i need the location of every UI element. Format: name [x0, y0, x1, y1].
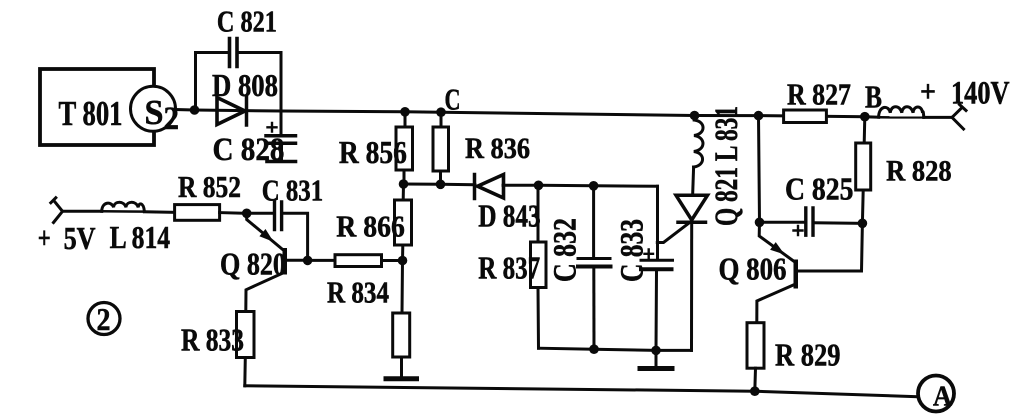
resistor R836 [439, 112, 443, 184]
svg-text:+: + [920, 74, 936, 109]
bottom rail wire [245, 386, 921, 397]
svg-text:Q 806: Q 806 [719, 252, 787, 287]
node dot C832 bottom [589, 344, 599, 354]
node dot at S2 output [190, 105, 200, 115]
wire C821 bypass loop [196, 53, 282, 112]
input fork +5V [51, 198, 63, 223]
output inductor [865, 115, 879, 118]
svg-text:Q 821 L 831: Q 821 L 831 [709, 106, 745, 226]
node C dot right [436, 107, 446, 117]
capacitor C821 plates [230, 39, 238, 67]
node C dot left [400, 107, 410, 117]
node B dot [860, 112, 870, 122]
capacitor C833 [656, 186, 659, 257]
transformer T801 box [40, 69, 154, 145]
svg-text:R 834: R 834 [327, 276, 389, 310]
svg-text:L 814: L 814 [110, 220, 171, 255]
svg-text:R 827: R 827 [787, 77, 851, 112]
svg-text:2: 2 [97, 301, 111, 337]
node dot C833 bottom [651, 346, 661, 356]
wire mid horizontal line [404, 184, 658, 186]
resistor R828 [862, 117, 864, 224]
output fork +140V [952, 105, 966, 130]
transistor Q806 [759, 222, 793, 261]
winding S2 circle [131, 86, 176, 131]
diode D843 [478, 175, 504, 199]
svg-text:5V: 5V [64, 221, 96, 256]
svg-text:+: + [38, 220, 51, 255]
ground left [386, 376, 417, 381]
svg-text:C 831: C 831 [262, 173, 324, 208]
wire input to L814 [63, 210, 102, 213]
resistor R837 [537, 185, 541, 348]
svg-text:140V: 140V [951, 76, 1010, 112]
capacitor C831 [247, 212, 273, 215]
gate wire Q821 [657, 222, 690, 243]
node dot Q820 base [303, 256, 313, 266]
svg-text:R 833: R 833 [181, 323, 244, 358]
diode D808 [217, 98, 245, 125]
node dot R866 bottom [398, 256, 408, 266]
svg-text:A: A [933, 381, 952, 413]
node dot R852 right [242, 209, 252, 219]
node dot R837 top [534, 181, 544, 191]
resistor R833 [237, 312, 255, 358]
node dot R836 bottom [436, 180, 446, 190]
wire main top rail [176, 110, 865, 117]
node dot bottom rail [750, 386, 760, 396]
inductor L831 [693, 116, 696, 121]
svg-text:C 833: C 833 [614, 219, 650, 282]
svg-text:Q 820: Q 820 [220, 247, 286, 282]
svg-text:2: 2 [164, 101, 180, 137]
figure number circled 2 [88, 303, 120, 335]
wire right branch vertical [759, 116, 760, 223]
node dot C825 right [858, 219, 868, 229]
svg-text:R 836: R 836 [465, 132, 530, 165]
node dot R856 bottom [399, 179, 409, 189]
node dot right branch top [754, 111, 764, 121]
resistor R829 [747, 323, 764, 369]
thyristor Q821 [676, 195, 708, 220]
resistor below R866 [402, 261, 403, 377]
ground mid [655, 351, 658, 367]
svg-text:R 837: R 837 [478, 250, 540, 285]
resistor R827 [784, 110, 827, 123]
svg-text:D 808: D 808 [212, 68, 278, 103]
svg-text:S: S [145, 93, 164, 132]
svg-text:C 825: C 825 [785, 172, 854, 207]
resistor R834 [309, 259, 403, 262]
svg-text:R 828: R 828 [886, 155, 952, 188]
svg-text:R 829: R 829 [775, 338, 841, 373]
node dot L831 top [690, 111, 700, 121]
inductor L814 [102, 202, 145, 211]
svg-text:T 801: T 801 [59, 94, 123, 133]
transistor Q820 [247, 213, 283, 250]
svg-text:C 832: C 832 [548, 218, 584, 282]
svg-text:R 856: R 856 [339, 135, 407, 170]
svg-text:D 843: D 843 [478, 199, 541, 234]
resistor R852 [175, 205, 220, 221]
capacitor C828 [280, 111, 283, 134]
resistor R866 [403, 184, 404, 261]
svg-text:C 828: C 828 [213, 132, 285, 168]
wire mid bottom line [539, 348, 692, 350]
capacitor C825 [760, 221, 805, 224]
svg-text:C: C [445, 82, 461, 117]
wire to output fork [924, 116, 952, 119]
node dot C825 left [755, 218, 765, 228]
capacitor C832 [592, 186, 595, 257]
svg-text:C 821: C 821 [217, 4, 277, 39]
node dot C832 top [589, 181, 599, 191]
svg-text:R 852: R 852 [178, 169, 241, 204]
wire L814 to R852 [144, 210, 174, 214]
terminal circle A [918, 376, 954, 412]
svg-text:R 866: R 866 [336, 209, 405, 244]
resistor R856 [404, 112, 405, 184]
